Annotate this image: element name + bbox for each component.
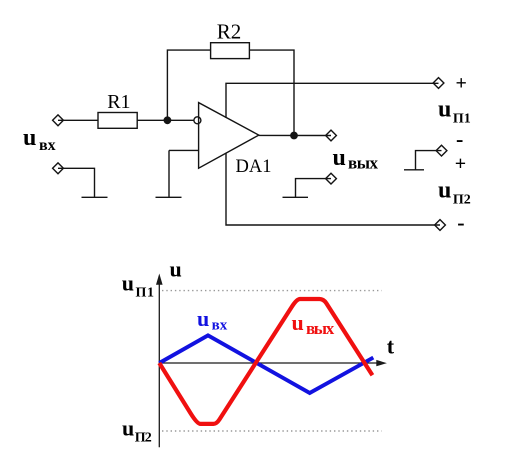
wire non-inverting input	[169, 149, 199, 151]
svg-text:+: +	[455, 73, 466, 95]
axis u vertical	[159, 284, 377, 447]
wire	[58, 119, 98, 121]
svg-text:u: u	[170, 257, 182, 282]
svg-text:+: +	[455, 153, 466, 175]
wire output	[259, 134, 331, 136]
wire negative supply pin	[226, 153, 440, 225]
ground output	[283, 196, 309, 198]
op-amp DA1	[199, 103, 259, 169]
svg-text:R2: R2	[217, 20, 242, 44]
wire positive supply pin	[226, 83, 439, 118]
svg-text:R1: R1	[107, 91, 130, 113]
ground non-inverting	[156, 150, 182, 198]
ground input	[82, 196, 108, 198]
svg-text:-: -	[456, 127, 463, 152]
ground supply mid	[404, 169, 424, 171]
node B junction output	[290, 132, 298, 140]
wire output reference	[296, 179, 332, 198]
axis u arrowhead	[156, 274, 163, 285]
wire input reference	[58, 168, 95, 198]
curve u_out red	[159, 299, 372, 424]
terminal input top	[53, 115, 64, 126]
resistor R2	[211, 43, 250, 59]
axis t arrowhead	[376, 360, 387, 366]
wire feedback up	[167, 50, 210, 120]
svg-text:t: t	[387, 334, 395, 359]
svg-text:-: -	[457, 210, 464, 235]
curve u_in blue	[159, 335, 373, 393]
terminal supply mid	[436, 145, 447, 156]
svg-text:DA1: DA1	[236, 157, 272, 177]
terminal output top	[326, 130, 337, 141]
terminal supply plus	[433, 78, 444, 89]
wire	[137, 119, 194, 121]
terminal output bottom	[326, 173, 337, 184]
node A junction	[164, 116, 172, 124]
dotted level u_P1	[162, 290, 382, 292]
terminal supply minus	[435, 220, 446, 231]
op-amp U1 inverting input circle	[194, 117, 201, 124]
resistor R1	[98, 113, 137, 129]
dotted level u_P2	[162, 430, 382, 432]
wire supply mid reference	[416, 151, 442, 171]
terminal input bottom	[53, 163, 64, 174]
wire feedback down	[249, 50, 294, 135]
